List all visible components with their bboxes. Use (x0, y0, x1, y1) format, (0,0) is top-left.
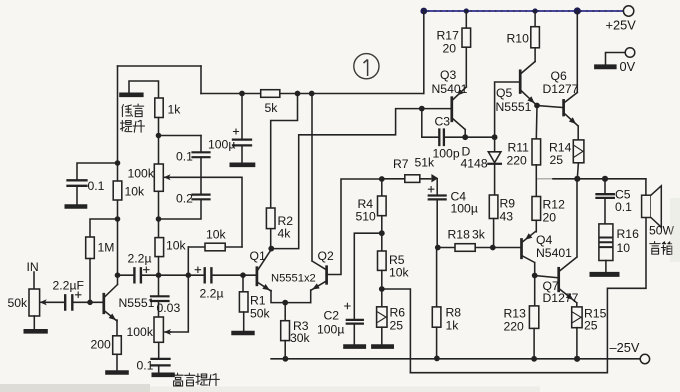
wire: to Q6 base (537, 106, 564, 108)
svg-text:0.1: 0.1 (88, 179, 105, 193)
wire: bus y=93.5 from x=201 to x=423 (201, 93, 423, 95)
node: Q3 base / C3 junction (419, 106, 425, 112)
wire: Q0 emitter to 200 resistor (116, 320, 118, 336)
resistor R16 10 (striped) (599, 224, 613, 261)
resistor R15 25 (with diagonal) (572, 307, 582, 328)
node: 100u junction on bus (239, 91, 245, 97)
svg-text:R13: R13 (504, 307, 527, 321)
ground: C2 ground (346, 344, 364, 349)
wire: R1 from base node (242, 275, 244, 292)
resistor 1k (155, 98, 163, 118)
node: R9 / R18 / Q4 base (490, 245, 496, 251)
node: C4/R18/R8 junction (435, 245, 441, 251)
capacitor C5 0.1 (604, 179, 606, 194)
svg-text:R6: R6 (390, 306, 406, 320)
svg-text:R10: R10 (507, 32, 530, 46)
svg-text:50k: 50k (8, 296, 29, 310)
ground: R16 ground (592, 272, 617, 277)
terminal: +25V (623, 6, 633, 16)
svg-text:100k: 100k (127, 325, 154, 339)
wire: Q1 emitter down to shared bus (271, 291, 311, 303)
resistor 1M (86, 237, 95, 259)
svg-text:30k: 30k (290, 331, 311, 345)
svg-text:50k: 50k (250, 307, 271, 321)
svg-text:R11: R11 (508, 141, 530, 155)
transistor Q0 N5551 (input) (102, 294, 105, 313)
resistor R9 43 (489, 195, 498, 219)
svg-text:Q3: Q3 (440, 68, 456, 82)
resistor 10k (rail A) (113, 181, 122, 200)
node: rail A / 0.1 branch (115, 160, 121, 166)
transistor Q6 D1277 (562, 100, 565, 115)
wire: horizontal y=135.5 to cap ladder (159, 135, 202, 137)
svg-text:N5551x2: N5551x2 (271, 273, 316, 285)
wire: Q2 base to feedback node (327, 179, 382, 275)
ground: left 0.1 cap ground (67, 204, 85, 209)
node: R2 feed junction on bus (295, 91, 301, 97)
node: Q1 collector / R2 bottom (268, 246, 274, 252)
capacitor 2.2u (coupling 2) (205, 268, 212, 282)
junction arrow: R7 to C4 (431, 174, 438, 182)
wire: pot1 bottom through node to 10k (158, 191, 160, 237)
node: rail A bottom / Q0 collector (115, 272, 121, 278)
wire: +25V riser to 5k bus (423, 11, 425, 94)
node: R17 on bus (464, 8, 469, 13)
svg-text:R8: R8 (446, 306, 462, 320)
label IN lead (33, 272, 35, 289)
node: R13 on negative bus (531, 356, 537, 362)
node: diode top / Q5 base riser (492, 134, 498, 140)
ground: 100u ground bar (232, 163, 253, 168)
capacitor C2 100u (347, 320, 363, 324)
svg-text:R9: R9 (500, 197, 516, 211)
resistor R18 3k (438, 247, 493, 249)
svg-text:1k: 1k (446, 319, 460, 333)
wire: left rail A vertical x=117 from top loop to input stage node (117, 66, 119, 275)
wire: C4 riser (436, 179, 438, 248)
resistor R14 25 (with diagonal) (573, 140, 584, 163)
ground: bass-boost loop ground bar (122, 93, 142, 98)
capacitor 0.1 (treble bottom) (152, 359, 170, 366)
resistor R10 (534, 11, 536, 27)
transistor Q4 N5401 (PNP) (520, 240, 523, 258)
wire: coupling line y=275.2 (118, 274, 257, 276)
node: Q6 collector on bus (574, 7, 581, 14)
resistor R1 50k (239, 292, 248, 312)
wire: pot2 bottom to 0.1 (158, 342, 160, 358)
node: 1k/0.1 ladder junction (156, 133, 162, 139)
speaker 50W (645, 179, 647, 195)
node: Q4 collector / Q7 base / R13 (532, 273, 538, 279)
svg-text:10k: 10k (166, 239, 187, 253)
resistor R6 25 (with diagonal) (381, 289, 383, 307)
wire: 10k bottom to coupling node (158, 257, 160, 276)
potentiometer 50k (input) (29, 289, 40, 316)
svg-text:D1277: D1277 (543, 82, 579, 96)
svg-text:5k: 5k (265, 101, 279, 115)
svg-text:10k: 10k (389, 266, 410, 280)
resistor R8 1k (436, 248, 438, 307)
capacitor 100u (tone supply) (241, 94, 243, 163)
capacitor 2.2u (coupling 1) (134, 268, 141, 282)
svg-text:25: 25 (390, 319, 404, 333)
node: R4/R5/C2 junction (379, 230, 385, 236)
node: figure number 1 (354, 54, 379, 79)
svg-text:0.2: 0.2 (176, 192, 193, 206)
resistor R12 20 (532, 197, 541, 221)
svg-text:4148: 4148 (461, 157, 488, 171)
resistor R13 220 (534, 276, 536, 306)
svg-text:43: 43 (500, 210, 514, 224)
resistor R2 4k (266, 208, 275, 229)
ground: input pot ground (26, 329, 46, 334)
svg-text:R7: R7 (393, 157, 409, 171)
svg-text:R12: R12 (543, 198, 566, 212)
scan smudges (0, 198, 680, 392)
node label: bass boost (Chinese) (120, 104, 144, 132)
node: R8 on negative bus (434, 356, 440, 362)
ground: Q0 emitter ground (108, 370, 127, 375)
diode D 4148 (494, 137, 496, 152)
svg-text:N5401: N5401 (536, 246, 572, 260)
svg-text:2.2µF: 2.2µF (53, 279, 84, 293)
wire: Q3 base (422, 108, 452, 110)
resistor R5 10k (378, 251, 387, 270)
transistor Q7 D1277 (557, 268, 560, 291)
svg-text:–25V: –25V (610, 340, 640, 355)
node: pot2 riser junction (186, 272, 192, 278)
svg-text:0.03: 0.03 (157, 301, 181, 315)
wire: feedback tap to speaker return (382, 289, 411, 373)
wire: 1M branch (90, 219, 118, 237)
wire: pot2 wiper riser x=188.3 (171, 247, 189, 332)
capacitor 0.1 (left, rail A top branch) (77, 163, 118, 204)
svg-text:Q1: Q1 (250, 249, 266, 263)
resistor R17 20 (465, 11, 467, 28)
node: bus left end (420, 8, 427, 15)
svg-text:220: 220 (504, 320, 525, 334)
wire: Q5 base riser (495, 82, 521, 137)
node: R5/R6/feedback junction (379, 286, 385, 292)
svg-text:100k: 100k (128, 167, 155, 181)
svg-text:1k: 1k (168, 103, 182, 117)
svg-text:10: 10 (617, 241, 631, 255)
svg-text:2.2µ: 2.2µ (200, 287, 224, 301)
svg-text:220: 220 (507, 154, 528, 168)
svg-text:D1277: D1277 (543, 291, 579, 305)
ground: R1 ground (234, 331, 253, 336)
potentiometer 100k (treble) (154, 317, 163, 342)
wire: top loop horizontal y=66 (118, 65, 202, 67)
capacitor 0.03 (158, 275, 160, 296)
node: C3 right / Q3 collector (462, 134, 468, 140)
wire: R2 chain and jog to bus (271, 94, 298, 249)
wire: 1k bottom to pot1 top (158, 118, 160, 165)
wire: Q7 base (535, 276, 559, 278)
node label: treble boost (Chinese) (173, 373, 220, 386)
svg-text:510: 510 (356, 210, 377, 224)
svg-text:1M: 1M (98, 241, 115, 255)
svg-text:0.1: 0.1 (137, 359, 154, 373)
wire: Q1 collector to Q3 base run (271, 109, 422, 249)
transistor Q1 N5551x2 (256, 268, 259, 285)
svg-text:R16: R16 (617, 227, 640, 241)
terminal: 0V (625, 48, 635, 58)
capacitor 0.1 (ladder top) (200, 136, 202, 195)
part label: speaker box (Chinese) (650, 242, 672, 255)
node: C5 on rail (602, 176, 608, 182)
capacitor 2.2uF input electrolytic (46, 301, 104, 303)
svg-text:C3: C3 (435, 115, 451, 129)
wire: vertical x=201 from loop to 5k bus (200, 66, 202, 94)
node: 0.03 chain top (156, 272, 162, 278)
node: Q2 collector junction on bus (309, 91, 315, 97)
svg-text:R17: R17 (437, 29, 460, 43)
svg-text:10k: 10k (206, 228, 227, 242)
svg-text:100µ: 100µ (451, 202, 478, 216)
node: pot1 bottom / 0.2 return junction (156, 216, 162, 222)
node: shared emitter / R3 (282, 300, 288, 306)
node: rail A / 1M branch (115, 216, 121, 222)
node: R15 on negative bus (574, 356, 580, 362)
node: R3 on negative bus (283, 356, 289, 362)
svg-text:N5551: N5551 (496, 100, 532, 114)
svg-text:3k: 3k (472, 228, 486, 242)
node: R4 top / R7 left junction (379, 176, 385, 182)
svg-text:0V: 0V (620, 59, 636, 74)
svg-text:25: 25 (550, 153, 564, 167)
svg-text:100µ: 100µ (317, 323, 344, 337)
ground: 0V ground bar (597, 64, 615, 69)
node: R14 / Q7 collector on rail (574, 176, 580, 182)
svg-text:200: 200 (91, 338, 112, 352)
svg-text:R18: R18 (448, 228, 471, 242)
svg-text:Q6: Q6 (551, 69, 567, 83)
svg-text:IN: IN (27, 260, 39, 274)
capacitor C4 100u (429, 196, 446, 200)
svg-text:C2: C2 (324, 309, 340, 323)
svg-text:20: 20 (543, 211, 557, 225)
resistor 5k (261, 90, 280, 98)
node: Q1 base / R1 junction (240, 272, 246, 278)
resistor R11 220 (532, 139, 541, 165)
node: Q0 base / 1M junction (87, 300, 93, 306)
wire: output rail y=178.8 (536, 178, 553, 180)
transistor Q3 N5401 (PNP) (450, 98, 453, 121)
svg-text:20: 20 (443, 42, 457, 56)
terminal: -25V (640, 354, 649, 363)
svg-text:100µ: 100µ (208, 138, 235, 152)
svg-text:100p: 100p (433, 147, 460, 161)
svg-text:+25V: +25V (606, 18, 637, 33)
svg-text:Q4: Q4 (536, 233, 552, 247)
wire: speaker return bottom run (410, 218, 646, 373)
wire: negative supply bus y=358.5 (271, 358, 640, 360)
resistor 10k (rail B lower) (155, 238, 164, 257)
wire: R11 riser (535, 106, 538, 139)
svg-text:25: 25 (584, 319, 598, 333)
svg-text:N5551: N5551 (119, 296, 155, 310)
node: Q5 emitter / R11 / Q6 base (534, 103, 540, 109)
ground: treble 0.1 ground (154, 372, 173, 377)
svg-text:0.1: 0.1 (176, 150, 193, 164)
svg-text:N5401: N5401 (432, 82, 468, 96)
capacitor 0.2 (ladder bottom) (193, 195, 210, 200)
ground: R6 ground (373, 344, 391, 349)
transistor Q5 N5551 (519, 71, 522, 93)
wire: +25V top bus (424, 10, 623, 12)
resistor R7 51k (382, 178, 431, 180)
node: R10 on bus (533, 8, 538, 13)
capacitor C3 100p (422, 109, 465, 138)
wire: 1M bottom to base node (89, 259, 91, 303)
resistor 10k horizontal (tone to wiper) (188, 246, 242, 248)
resistor 200 (113, 336, 122, 355)
wire: to diode node (465, 136, 494, 138)
svg-text:0.1: 0.1 (615, 200, 632, 214)
wire: pot1 wiper line y=177.3 to x=242 (169, 177, 242, 247)
svg-text:R1: R1 (250, 294, 266, 308)
wire: inner loop horizontal y=81 (129, 81, 159, 98)
svg-text:4k: 4k (278, 227, 292, 241)
svg-text:Q5: Q5 (496, 86, 512, 100)
transistor Q2 N5551x2 (mirrored) (325, 267, 328, 284)
potentiometer 100k (bass) (154, 164, 163, 191)
svg-text:10k: 10k (125, 185, 146, 199)
svg-text:Q2: Q2 (318, 249, 334, 263)
resistor R3 30k (284, 303, 286, 321)
wire: C2 branch (354, 233, 382, 320)
resistor R4 510 (381, 179, 383, 196)
svg-text:2.2µ: 2.2µ (128, 252, 152, 266)
